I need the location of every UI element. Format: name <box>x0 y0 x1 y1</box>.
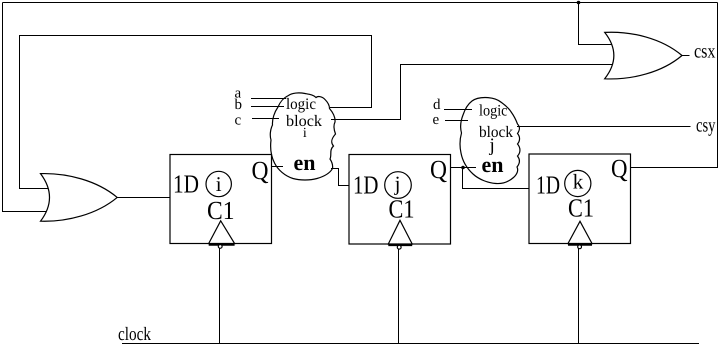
flip-flop U3 box <box>529 154 631 244</box>
wire: clock bus <box>122 343 699 345</box>
wire: logic block i output to FF2 1D input <box>331 169 349 186</box>
wire: input d <box>444 109 472 111</box>
svg-text:j: j <box>394 172 401 196</box>
svg-text:Q: Q <box>430 155 447 184</box>
OR gate G2 (csx) <box>605 32 682 79</box>
svg-text:C1: C1 <box>207 196 235 225</box>
svg-text:Q: Q <box>611 154 628 183</box>
wire: OR gate G1 output to FF1 1D input <box>117 197 170 199</box>
wire: logic block j output to csy <box>517 126 691 128</box>
wire: left outer feedback down to OR gate G1 lower input <box>3 3 49 212</box>
logic block j cloud <box>460 98 520 184</box>
node: junction on top rail <box>577 1 581 5</box>
svg-text:csx: csx <box>694 41 716 63</box>
svg-text:Q: Q <box>252 156 269 185</box>
svg-text:C1: C1 <box>389 195 415 224</box>
wire: FF3 Q output to right rail <box>631 3 718 168</box>
flip-flop U3 triangle base bar <box>568 243 592 246</box>
wire: logic block i output to OR gate G2 lower input <box>331 65 614 120</box>
flip-flop U1 state circle i <box>206 171 231 196</box>
svg-text:en: en <box>294 150 316 175</box>
svg-text:1D: 1D <box>353 170 379 199</box>
svg-text:i: i <box>216 172 222 196</box>
svg-text:1D: 1D <box>173 169 199 198</box>
svg-text:d: d <box>433 97 441 113</box>
wire: junction node to FF3 1D input <box>463 168 530 189</box>
flip-flop U1 clock triangle <box>209 221 235 244</box>
flip-flop U2 clock triangle <box>388 220 412 244</box>
flip-flop U3 clock triangle <box>568 221 592 243</box>
wire: FF3 Q feedback top rail <box>3 2 718 4</box>
svg-text:csy: csy <box>696 114 716 136</box>
svg-text:en: en <box>482 152 504 177</box>
wire: FF1 clock lead <box>219 249 221 344</box>
svg-text:C1: C1 <box>568 194 594 223</box>
svg-text:c: c <box>235 112 242 128</box>
wire: logic block i feedback via inner rail to OR gate G1 upper input <box>20 36 372 189</box>
flip-flop U1 box <box>170 155 272 244</box>
svg-text:e: e <box>433 112 440 128</box>
OR gate G1 <box>41 174 118 222</box>
wire: FF2 clock lead <box>398 249 400 344</box>
wire: OR gate G2 output to csx <box>682 55 690 57</box>
wire: top-rail junction down to OR gate G2 upper input <box>579 3 614 45</box>
svg-text:k: k <box>573 170 584 194</box>
svg-text:i: i <box>303 126 307 141</box>
svg-text:logic: logic <box>479 103 508 120</box>
svg-text:1D: 1D <box>536 170 560 199</box>
flip-flop U2 clock bubble <box>397 245 401 249</box>
wire: FF1 Q to logic block i en input <box>272 166 284 168</box>
svg-text:logic: logic <box>286 96 316 113</box>
wire: input c <box>252 118 279 120</box>
wire: input a <box>251 98 286 100</box>
flip-flop U3 clock bubble <box>578 245 582 249</box>
flip-flop U1 clock bubble <box>218 245 222 249</box>
wire: FF3 clock lead <box>578 249 580 344</box>
flip-flop U2 triangle base bar <box>388 244 412 247</box>
flip-flop U2 state circle j <box>385 172 412 199</box>
flip-flop U1 triangle base bar <box>209 243 235 246</box>
flip-flop U3 state circle k <box>565 170 591 196</box>
svg-text:b: b <box>235 97 243 113</box>
wire: FF2 Q to junction node <box>451 167 477 169</box>
logic block i cloud <box>270 93 335 180</box>
node: junction at FF2 Q <box>461 166 465 170</box>
wire: input b <box>251 106 284 108</box>
wire: input e <box>445 120 468 122</box>
svg-text:clock: clock <box>118 324 151 345</box>
flip-flop U2 box <box>349 155 451 245</box>
svg-text:block: block <box>479 124 513 141</box>
